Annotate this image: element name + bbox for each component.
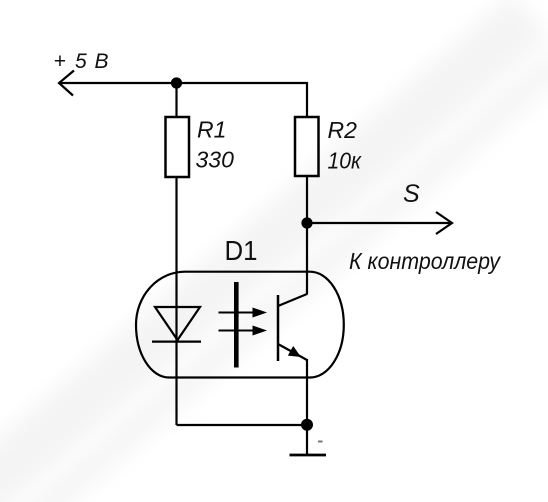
svg-text:D1: D1	[225, 235, 258, 266]
svg-text:R2: R2	[328, 117, 358, 143]
svg-text:+5В: +5В	[54, 50, 109, 73]
svg-text:10к: 10к	[328, 148, 363, 174]
svg-text:330: 330	[196, 147, 235, 173]
svg-text:К контроллеру: К контроллеру	[349, 248, 501, 274]
svg-text:R1: R1	[197, 117, 226, 143]
svg-text:S: S	[403, 180, 420, 208]
